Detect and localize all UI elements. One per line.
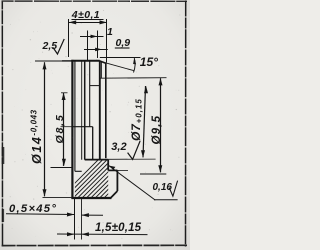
frame left edge darker segment 2	[2, 209, 4, 222]
angle arc arrow	[133, 57, 136, 64]
extension of top edge to left	[35, 60, 62, 62]
dia 7 dimension line	[143, 86, 146, 157]
wire inner bore line V2	[84, 61, 86, 160]
dim 1,5 lower arrow at E	[67, 232, 74, 236]
wire ext of block top to right	[108, 158, 155, 160]
wire flange block top edge	[85, 159, 109, 161]
dia 14 top arrow	[43, 62, 47, 69]
dia 7 top arrow	[144, 86, 148, 93]
svg-text:0,16: 0,16	[153, 182, 173, 193]
paper background	[0, 0, 190, 250]
wire left outer wall	[71, 60, 73, 199]
chamfer leader underline	[6, 213, 74, 216]
dia 7 bottom arrow	[141, 150, 145, 157]
dim 0,9 arrow	[95, 48, 102, 52]
frame top edge line	[2, 0, 187, 2]
frame bottom edge line	[2, 244, 187, 246]
scan speckles	[10, 10, 181, 239]
frame right edge line	[185, 1, 187, 247]
dim 1,5 right segment	[82, 214, 104, 216]
wire taper edge 15 deg (thick part)	[100, 61, 106, 63]
dim 1 arrow	[91, 35, 98, 39]
roughness 2,5 check mark	[53, 39, 64, 54]
dim 1,5 right segment arrow	[82, 213, 89, 217]
dia 9,5 dimension line	[160, 78, 162, 172]
dim 1 dimension line	[80, 36, 104, 38]
angle horizontal reference ray	[100, 57, 141, 59]
dim 4+-0,1 dimension line	[69, 22, 107, 24]
dia 8,5 top tick	[61, 92, 68, 94]
hatching of flange section	[58, 158, 144, 200]
wire internal left step y171.2	[75, 170, 82, 172]
dia 14 dimension line	[44, 62, 46, 196]
wire inner bore line V3	[89, 61, 91, 127]
wire ext of step to right	[117, 169, 128, 171]
dim 1,5 lower arrow right	[82, 232, 89, 236]
dim 4+-0,1 left arrow	[69, 20, 76, 24]
extension line C	[87, 31, 89, 61]
dia 8,5 bottom extension line	[51, 167, 72, 169]
wire top edge of part	[71, 60, 100, 62]
wire flange step horizontal	[108, 169, 117, 171]
wire right outer wall	[99, 61, 101, 160]
wire left inner wall line	[74, 61, 76, 172]
wire flange block right edge	[107, 160, 109, 171]
wire inner counterbore step y126.6	[72, 126, 93, 128]
extension line D	[97, 31, 99, 59]
dim 4+-0,1 right arrow	[100, 20, 107, 24]
leader arrow	[109, 166, 116, 170]
dim 0,9 dimension line	[84, 49, 108, 51]
dim 0,9 underline	[115, 47, 130, 49]
dim 1,5 lower line	[57, 233, 148, 236]
wire top edge overshoot left	[62, 60, 72, 62]
ext from taper end down	[100, 62, 102, 79]
wire ext of counterbore step to left	[61, 126, 72, 128]
svg-text:Ø9,5: Ø9,5	[151, 115, 163, 145]
dim 4+-0,1 text underline	[72, 19, 104, 21]
dia 9,5 top arrow	[159, 78, 163, 85]
dia 9,5 bottom extension line	[140, 173, 166, 175]
wire flange bottom edge	[71, 197, 111, 199]
ext from boss edge down	[105, 63, 107, 78]
extension line B right	[106, 19, 108, 63]
svg-text:0,9: 0,9	[116, 37, 131, 49]
frame left edge darker segment 1	[2, 147, 5, 164]
extension line A left	[68, 19, 70, 57]
leader shelf	[154, 199, 178, 201]
wire inner step at y85.6	[90, 85, 100, 87]
wire inner bore line V4	[92, 127, 94, 160]
angle arc	[134, 58, 136, 72]
dia 9,5 bottom arrow	[158, 165, 162, 172]
wire flange right edge	[116, 170, 118, 191]
extension line E	[74, 199, 76, 240]
wire flange bottom-right chamfer	[111, 191, 118, 198]
svg-text:0,5×45°: 0,5×45°	[9, 203, 57, 215]
frame left edge line	[1, 1, 3, 247]
chamfer leader arrow	[67, 213, 74, 217]
dia 8,5 bottom arrow	[62, 159, 66, 166]
wire boss outer edge	[105, 63, 107, 158]
roughness 3,2 check mark	[128, 141, 141, 159]
dia 8,5 dimension line	[63, 93, 65, 166]
wire inner bore line V5 upper	[81, 61, 83, 130]
svg-text:3,2: 3,2	[111, 141, 126, 153]
angle taper ray thin extension	[96, 60, 134, 70]
dia 14 bottom arrow	[43, 189, 47, 196]
wire inner bore line V5	[81, 129, 83, 160]
wire ext of flange bottom to left	[43, 197, 72, 199]
svg-text:15°: 15°	[140, 55, 158, 69]
extension line F	[81, 199, 83, 240]
roughness 0,16 check mark	[169, 181, 177, 197]
svg-text:1: 1	[107, 26, 113, 38]
leader line to step corner	[109, 166, 156, 201]
dia 8,5 top arrow	[62, 93, 66, 100]
svg-text:Ø8,5: Ø8,5	[54, 114, 66, 144]
dia 9,5 extension line top	[100, 77, 167, 80]
